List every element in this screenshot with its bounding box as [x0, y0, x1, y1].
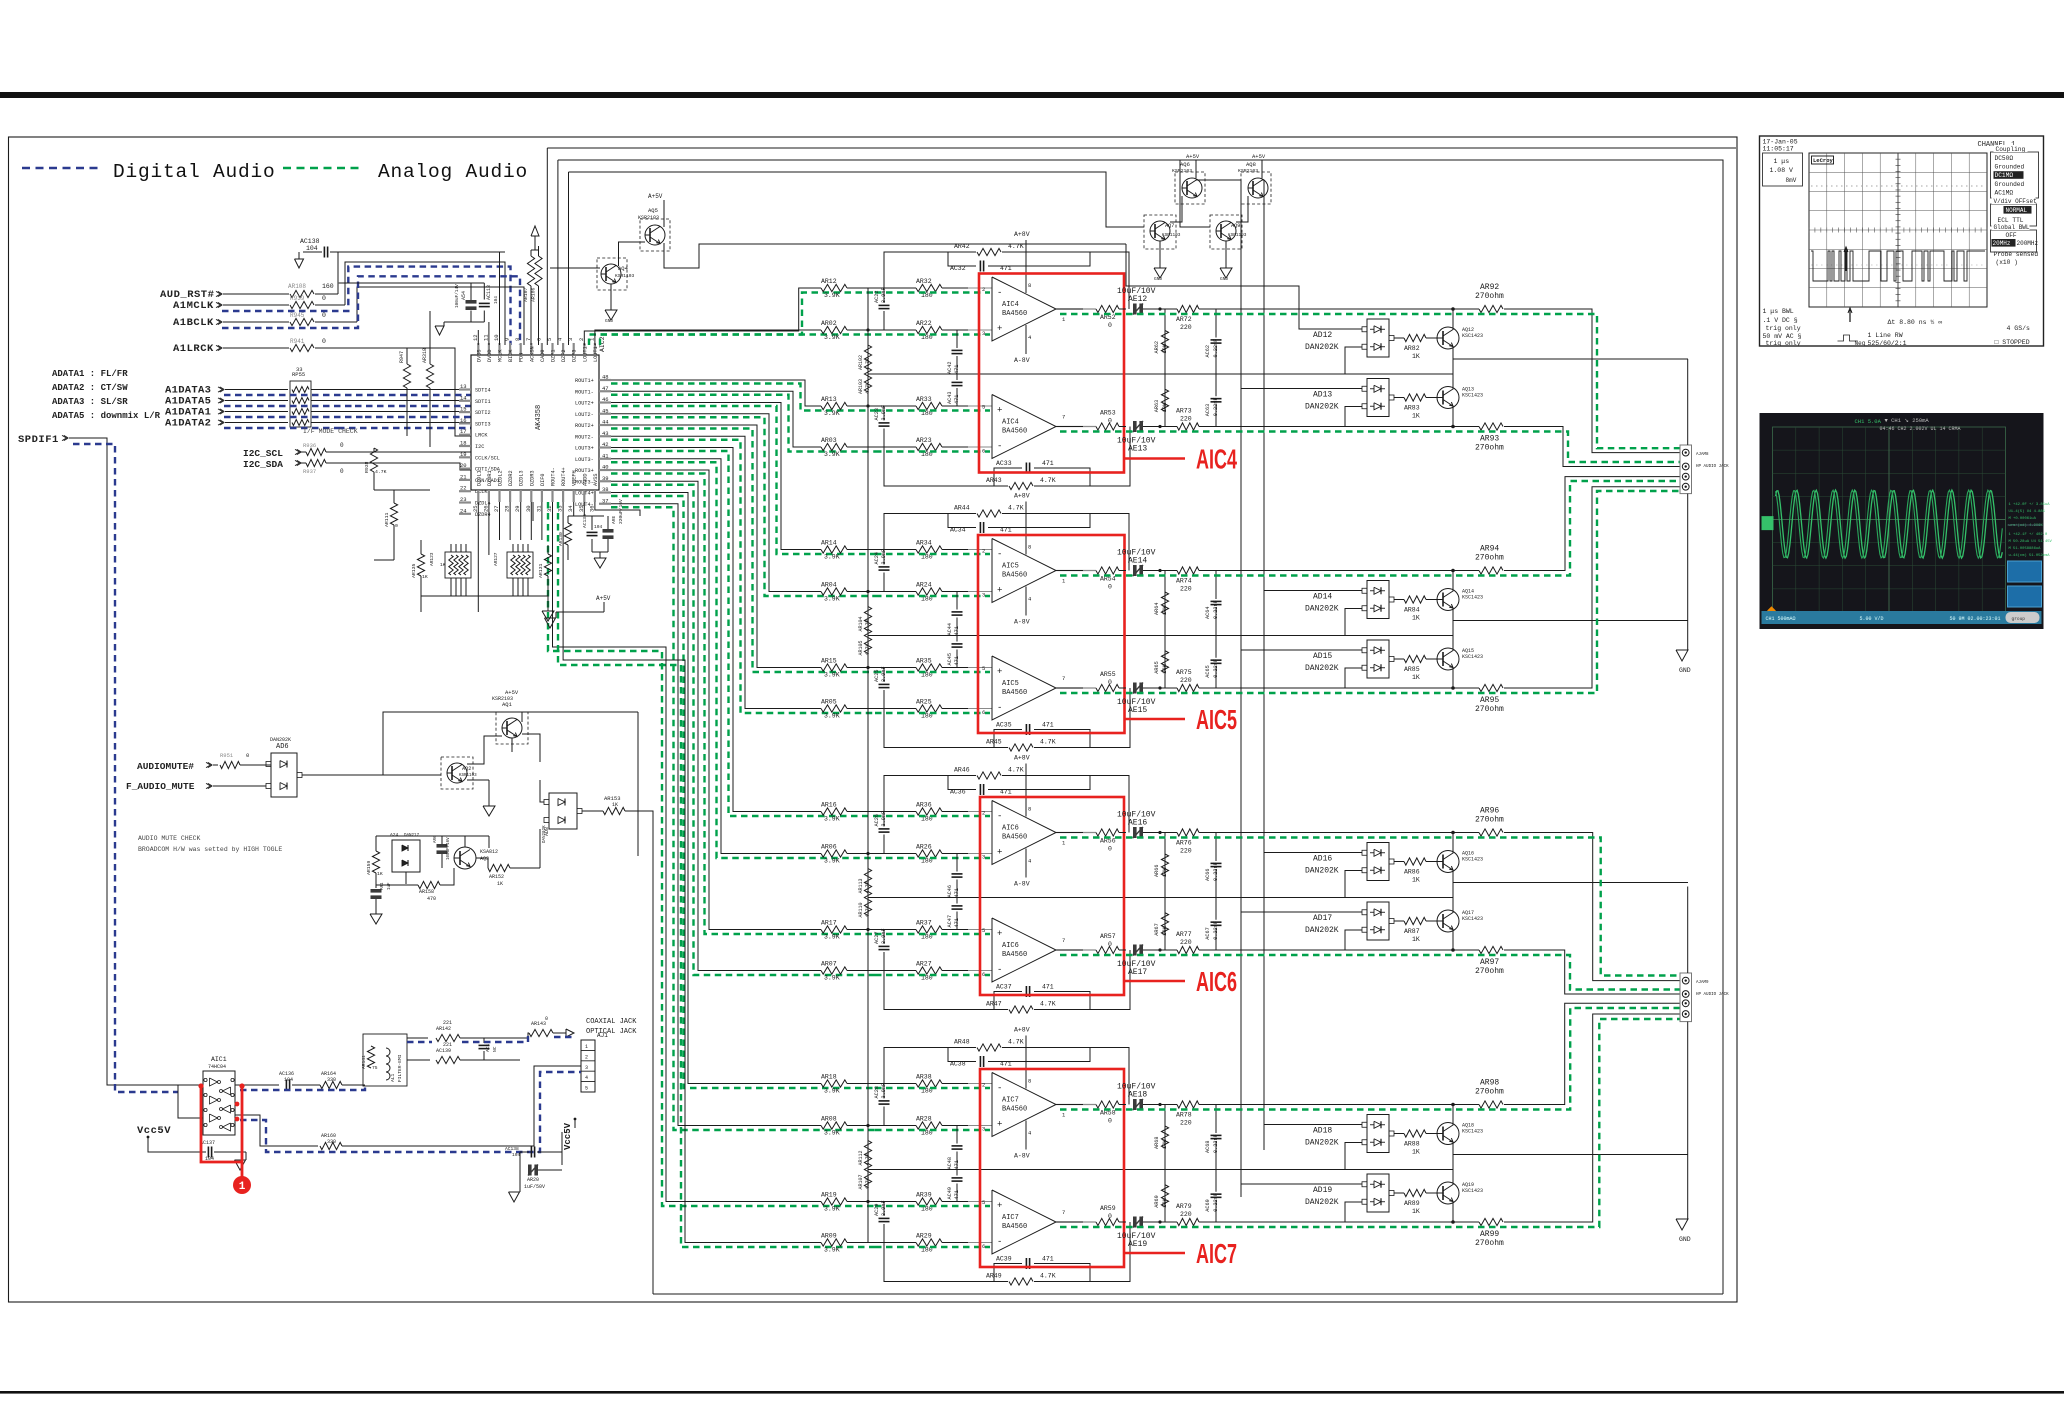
svg-text:1 μs: 1 μs — [1774, 158, 1790, 165]
svg-text:AQ4: AQ4 — [618, 265, 629, 272]
analog dash into opamp row3 — [875, 409, 990, 411]
svg-text:270ohm: 270ohm — [1475, 967, 1504, 976]
svg-text:0: 0 — [1108, 418, 1112, 425]
svg-text:AR35: AR35 — [916, 658, 932, 665]
svg-text:A+8V: A+8V — [1014, 231, 1030, 238]
analog dash into opamp row3 — [875, 933, 990, 935]
diode AD6 DAN202K — [271, 753, 297, 797]
collector/emitter wires AQ15 — [1452, 667, 1454, 688]
IC left pin 14 SDTI1 — [459, 400, 471, 402]
svg-text:3.9K: 3.9K — [824, 672, 840, 679]
red label AIC5 — [1125, 718, 1186, 721]
resistor AR66 10K — [1164, 833, 1166, 898]
svg-text:0: 0 — [1108, 679, 1112, 686]
svg-text:AR107: AR107 — [523, 287, 529, 302]
capacitor AC46 471 — [956, 854, 958, 872]
IC AIC1 74HC04 — [203, 1071, 235, 1135]
resistor AR99 270ohm — [1451, 1220, 1455, 1224]
svg-text:1: 1 — [585, 1044, 588, 1050]
svg-text:AR23: AR23 — [916, 437, 932, 444]
diode AD17 DAN202K — [1367, 902, 1389, 940]
wire to mute stage ch1 — [1240, 426, 1453, 428]
resistor R951 0 — [220, 761, 240, 768]
capacitor AC66 0.22nF — [1215, 833, 1217, 862]
svg-text:R936: R936 — [303, 442, 316, 449]
svg-text:7: 7 — [1062, 414, 1065, 421]
IC right pin 40 ROUT3+ — [599, 469, 611, 471]
svg-text:KSR1103: KSR1103 — [459, 774, 477, 778]
svg-text:17: 17 — [460, 428, 467, 435]
resistor AR12 3.9K — [821, 284, 847, 291]
svg-text:KSC1423: KSC1423 — [1462, 857, 1483, 863]
svg-text:HP AUDIO JACK: HP AUDIO JACK — [1696, 993, 1729, 997]
svg-text:AR34: AR34 — [916, 540, 932, 547]
resistor AR105 4.7K — [867, 629, 869, 636]
svg-text:42: 42 — [602, 441, 609, 448]
svg-text:3: 3 — [982, 330, 985, 337]
resistor AR93 270ohm — [1451, 425, 1455, 429]
resistor AR32 180 — [916, 284, 942, 291]
svg-text:100uF/16V: 100uF/16V — [446, 837, 451, 860]
svg-text:V/div OFFset: V/div OFFset — [1994, 198, 2037, 205]
resistor R945 0 — [290, 318, 314, 325]
svg-text:AR37: AR37 — [916, 920, 932, 927]
resistor AR33 180 — [916, 402, 942, 409]
svg-text:AR79: AR79 — [1176, 1203, 1192, 1210]
oscilloscope screenshot 2 background — [1760, 413, 2044, 629]
svg-text:AD16: AD16 — [1313, 855, 1332, 864]
schematic sheet frame — [9, 137, 1738, 1302]
svg-text:A+8V: A+8V — [1014, 1027, 1030, 1034]
IC right pin 43 ROUT2- — [599, 435, 611, 437]
svg-text:270ohm: 270ohm — [1475, 444, 1504, 453]
svg-text:-: - — [997, 550, 1002, 560]
resistor AR52 0 — [1096, 305, 1119, 312]
analog dash into opamp row2 — [875, 333, 990, 335]
op-amp AIC5 BA4560 (B) — [992, 656, 1056, 720]
svg-text:8: 8 — [1028, 1078, 1031, 1085]
ground AIC1 — [245, 1152, 247, 1160]
svg-text:Neg: Neg — [1855, 340, 1866, 347]
svg-text:Global BWL: Global BWL — [1994, 224, 2030, 231]
analog dash into opamp row1 — [875, 291, 990, 293]
scope1 vdiv menu — [1991, 204, 2037, 226]
capacitor AC27 3.9nF — [883, 930, 885, 945]
svg-text:KSC1423: KSC1423 — [1462, 595, 1483, 601]
resistor AR84 1K — [1404, 596, 1426, 603]
svg-text:+: + — [997, 848, 1002, 858]
svg-text:AR28: AR28 — [916, 1116, 932, 1123]
ground AQ7 — [1159, 262, 1161, 268]
ground — [443, 322, 445, 326]
IC AIC2 AK4358 body — [471, 355, 599, 490]
IC right pin 45 LOUT2- — [599, 413, 611, 415]
svg-text:AC65: AC65 — [1205, 665, 1211, 677]
resistor AR58 0 — [1096, 1101, 1119, 1108]
IC bottom pin 26 DZDR1 — [488, 490, 490, 502]
svg-text:R951: R951 — [220, 752, 234, 759]
svg-text:AIC5: AIC5 — [1196, 704, 1237, 735]
resistor AR26 180 — [916, 850, 942, 857]
resistor AR64 10K — [1164, 571, 1166, 636]
svg-text:29: 29 — [514, 505, 521, 512]
resistor AR97 270ohm — [1451, 948, 1455, 952]
svg-text:A-8V: A-8V — [1014, 357, 1030, 364]
svg-text:7: 7 — [1062, 937, 1065, 944]
capacitor AC32 471 — [948, 252, 976, 266]
analog dash into opamp row4 — [875, 712, 990, 714]
svg-text:4 GS/s: 4 GS/s — [2007, 325, 2031, 332]
svg-text:AC113: AC113 — [486, 285, 492, 300]
svg-text:AE14: AE14 — [1128, 557, 1147, 566]
svg-text:AR135: AR135 — [411, 563, 417, 578]
svg-text:1K: 1K — [377, 871, 383, 877]
svg-text:0: 0 — [322, 312, 326, 319]
analog wire ROUT route 2 — [611, 391, 821, 447]
capacitor AE19 10uF/10V — [1133, 1217, 1137, 1228]
transistor AQ1 KSR2103 — [496, 712, 528, 744]
analog dash route 11 — [611, 496, 875, 1088]
svg-text:471: 471 — [954, 888, 960, 897]
svg-text:AR88: AR88 — [1404, 1141, 1420, 1148]
diode pin2 wire AD18 — [1345, 1143, 1362, 1170]
wire row 3 — [847, 929, 916, 931]
DZF feed AD17 — [1241, 911, 1362, 913]
analog wire ROUT route 6 — [611, 436, 821, 708]
svg-text:AJ1: AJ1 — [597, 1032, 608, 1039]
IC left pin 15 SDTI2 — [459, 411, 471, 413]
svg-text:20MHz: 20MHz — [1993, 240, 2011, 247]
svg-text:u-44(cm) 51.052mmA: u-44(cm) 51.052mmA — [2009, 553, 2051, 558]
svg-text:BA4560: BA4560 — [1002, 1223, 1027, 1231]
svg-text:4.7K: 4.7K — [375, 469, 387, 475]
svg-text:AIC6: AIC6 — [1196, 966, 1237, 997]
svg-text:0: 0 — [340, 468, 344, 475]
diode pin2 wire AD12 — [1345, 347, 1362, 374]
svg-text:(x10 ): (x10 ) — [1996, 259, 2018, 266]
scope2 bottom bar — [1762, 611, 2042, 624]
svg-text:A24: A24 — [390, 832, 399, 838]
svg-text:GND: GND — [1679, 667, 1691, 674]
resistor AR143 0 — [529, 1029, 553, 1036]
svg-text:AR1: AR1 — [381, 882, 385, 890]
svg-text:220: 220 — [1180, 848, 1192, 855]
analog dash into opamp row2 — [875, 595, 990, 597]
capacitor AC28 3.9nF — [883, 1084, 885, 1099]
IC right pin 48 ROUT1+ — [599, 379, 611, 381]
IC left pin 19 CCLK/SCL — [459, 456, 471, 458]
svg-text:471: 471 — [1000, 527, 1012, 534]
svg-text:AC46: AC46 — [947, 885, 953, 897]
resistor AR108 160 — [290, 290, 314, 297]
svg-text:41: 41 — [602, 452, 609, 459]
svg-text:U1-4(5) U4 4.885: U1-4(5) U4 4.885 — [2009, 509, 2046, 514]
digital dash A1DATA1 — [224, 416, 365, 418]
resistor AR39 180 — [916, 1198, 942, 1205]
resistor AR318 NC — [426, 364, 433, 388]
IC bottom pin verticals — [477, 502, 479, 540]
svg-text:DZDL3: DZDL3 — [519, 470, 525, 486]
svg-text:AE12: AE12 — [1128, 295, 1147, 304]
DZF feed AD14 — [1264, 590, 1362, 592]
svg-text:DAN202K: DAN202K — [1305, 867, 1339, 876]
svg-text:AR15: AR15 — [821, 658, 837, 665]
svg-text:270ohm: 270ohm — [1475, 1088, 1504, 1097]
svg-text:4.7K: 4.7K — [1008, 505, 1024, 512]
ground — [519, 1170, 521, 1192]
resistor AR86 1K — [1404, 858, 1426, 865]
svg-text:104: 104 — [594, 524, 603, 530]
resistor AR14 3.9K — [821, 546, 847, 553]
svg-text:AC45: AC45 — [947, 653, 953, 665]
resistor AR38 180 — [916, 1080, 942, 1087]
svg-text:4: 4 — [585, 1075, 588, 1081]
svg-text:3.9K: 3.9K — [824, 596, 840, 603]
svg-text:CCLK/SCL: CCLK/SCL — [475, 455, 500, 461]
svg-text:AC1: AC1 — [485, 1043, 491, 1052]
svg-text:43: 43 — [602, 430, 609, 437]
svg-text:AR82: AR82 — [1404, 345, 1420, 352]
svg-text:AR25: AR25 — [916, 699, 932, 706]
svg-text:A-8V: A-8V — [1014, 1153, 1030, 1160]
analog dash into opamp row3 — [875, 671, 990, 673]
IC top pin 6 CAD0 — [541, 343, 543, 355]
resistor R937 0 — [306, 459, 326, 466]
svg-text:AD18: AD18 — [1313, 1127, 1332, 1136]
red highlight box AIC7 — [980, 1069, 1124, 1267]
svg-text:ARE: ARE — [611, 515, 617, 524]
svg-text:1K: 1K — [1412, 674, 1420, 681]
svg-text:471: 471 — [1042, 1256, 1054, 1263]
svg-text:DAN202K: DAN202K — [1305, 926, 1339, 935]
svg-text:5: 5 — [982, 927, 985, 934]
svg-text:0.22nF: 0.22nF — [1213, 921, 1219, 940]
svg-text:trig only: trig only — [1766, 325, 1801, 332]
svg-text:0: 0 — [545, 1016, 548, 1022]
svg-text:4.7K: 4.7K — [1040, 1001, 1056, 1008]
svg-text:AC42: AC42 — [947, 362, 953, 374]
svg-text:160: 160 — [322, 283, 334, 290]
svg-text:BA4560: BA4560 — [1002, 428, 1027, 436]
svg-text:AQ2: AQ2 — [462, 766, 471, 772]
svg-text:DZF3: DZF3 — [572, 350, 578, 362]
svg-text:+: + — [997, 1201, 1002, 1211]
wire row 1 — [847, 549, 916, 551]
svg-text:LOUT1-: LOUT1- — [593, 343, 599, 362]
svg-text:AR110: AR110 — [858, 902, 864, 917]
svg-text:AIC4: AIC4 — [1002, 419, 1019, 427]
svg-text:220uF/16V: 220uF/16V — [618, 499, 624, 524]
resistor AR75 220 — [1158, 686, 1161, 689]
ground AQ9 — [1225, 262, 1227, 268]
resistor AR111 0 — [390, 503, 397, 525]
power up arrow above PDN — [534, 236, 536, 250]
resistor AR53 0 — [1096, 423, 1119, 430]
scope1 trigger arrows — [1845, 249, 1847, 271]
svg-text:0.22nF: 0.22nF — [1213, 862, 1219, 881]
capacitor AC36 471 — [948, 776, 976, 790]
VREFH/AVDD wires — [573, 502, 575, 516]
analog dash route 10 — [611, 485, 875, 975]
collector/emitter wires AQ12 — [1452, 309, 1454, 330]
resistor AR141 75 — [367, 1046, 374, 1068]
transistor AQ13 KSC1423 — [1437, 387, 1459, 409]
capacitor AE14 10uF/10V — [1133, 565, 1137, 576]
svg-text:ADATA3 : SL/SR: ADATA3 : SL/SR — [52, 397, 128, 407]
resistor AR47 4.7K — [884, 971, 1008, 1010]
svg-text:AC36: AC36 — [950, 789, 966, 796]
svg-text:M 50.28uA U4 51.45V: M 50.28uA U4 51.45V — [2009, 540, 2053, 544]
svg-text:A+8V: A+8V — [1014, 755, 1030, 762]
svg-text:18: 18 — [460, 440, 467, 447]
svg-text:3.9K: 3.9K — [824, 713, 840, 720]
svg-text:6: 6 — [982, 1243, 985, 1250]
output route ch4 — [1504, 833, 1680, 981]
svg-text:10K: 10K — [1162, 343, 1168, 353]
scope2 left marker — [1762, 516, 1774, 530]
mid rail — [868, 897, 1453, 899]
svg-text:ROUT4+: ROUT4+ — [561, 467, 567, 486]
svg-text:0: 0 — [1108, 846, 1112, 853]
wire opamp out ch2 — [1056, 570, 1096, 572]
svg-text:AE13: AE13 — [1128, 445, 1147, 454]
IC bottom pin 36 AVSS — [594, 490, 596, 502]
svg-text:330: 330 — [327, 1139, 336, 1145]
analog dash route 2 — [611, 395, 875, 452]
op-amp AIC4 BA4560 (A) — [992, 277, 1056, 341]
svg-text:-: - — [997, 812, 1002, 822]
svg-text:AR111: AR111 — [384, 512, 390, 527]
svg-text:Analog Audio: Analog Audio — [378, 161, 528, 183]
svg-text:AIC4: AIC4 — [1196, 444, 1237, 475]
IC top pin 12 DVSS — [477, 343, 479, 355]
svg-text:AR85: AR85 — [1404, 666, 1420, 673]
svg-text:14: 14 — [460, 394, 467, 401]
collector/emitter wires AQ13 — [1452, 406, 1454, 427]
svg-text:8: 8 — [1028, 282, 1031, 289]
capacitor AC69 0.22nF — [1215, 1170, 1217, 1192]
wire row 4 — [847, 1242, 916, 1244]
pair ground line — [1453, 1154, 1688, 1156]
digital dash A1DATA3 — [224, 394, 345, 396]
digital dash A1DATA2 — [224, 427, 338, 429]
svg-text:ACKSN: ACKSN — [529, 346, 535, 362]
wire row 3 — [847, 405, 916, 407]
svg-text:3.9K: 3.9K — [824, 975, 840, 982]
SPDIF1 digital dash — [73, 444, 178, 1092]
red highlight box AIC6 — [980, 797, 1124, 995]
resistor AR76 220 — [1158, 831, 1161, 834]
svg-text:17-Jan-05: 17-Jan-05 — [1763, 139, 1798, 146]
svg-text:AR67: AR67 — [1154, 923, 1160, 935]
svg-text:AR108: AR108 — [288, 283, 306, 290]
pair ground line — [1453, 882, 1688, 884]
analog dash into opamp row1 — [875, 815, 990, 817]
svg-text:4.7K: 4.7K — [1008, 1039, 1024, 1046]
svg-text:AR03: AR03 — [821, 437, 837, 444]
svg-text:100uF/14V: 100uF/14V — [455, 284, 460, 308]
svg-text:AC44: AC44 — [947, 623, 953, 635]
svg-text:2: 2 — [982, 286, 985, 293]
svg-text:DAN202K: DAN202K — [1305, 1139, 1339, 1148]
wire row 1 — [847, 1083, 916, 1085]
red highlight AIC1 wires — [201, 1086, 242, 1162]
wire row 4 — [847, 708, 916, 710]
resistor AR48 4.7K — [884, 1048, 976, 1084]
svg-text:3.9K: 3.9K — [824, 1088, 840, 1095]
resistor AR74 220 — [1158, 569, 1161, 572]
svg-text:AVDD: AVDD — [582, 474, 588, 486]
resistor AR23 180 — [916, 443, 942, 450]
ground AQ2 — [488, 800, 490, 806]
svg-text:+: + — [997, 324, 1002, 334]
IC top pin 7 ACKSN — [530, 343, 532, 355]
DZF feed AD18 — [1264, 1124, 1362, 1126]
diode pin2 wire AD17 — [1345, 930, 1362, 950]
svg-text:AR29: AR29 — [916, 1233, 932, 1240]
resistor AR09 3.9K — [821, 1239, 847, 1246]
svg-text:DZF1: DZF1 — [551, 350, 557, 362]
svg-text:SDTI3: SDTI3 — [475, 421, 491, 427]
capacitor AC22 3.9nF — [883, 288, 885, 303]
resistor AR103 4.7K — [867, 367, 869, 374]
transistor AQ2 KSR1103 — [441, 757, 473, 789]
diode pin2 wire AD14 — [1345, 609, 1362, 636]
capacitor AC25 3.9nF — [883, 668, 885, 683]
wire to mute stage ch5 — [1240, 949, 1453, 951]
svg-text:AC29: AC29 — [874, 1204, 880, 1216]
svg-text:AC37: AC37 — [996, 984, 1012, 991]
resistor AR107 4.7K — [867, 1163, 869, 1170]
svg-text:A+5V: A+5V — [505, 689, 519, 696]
resistor AR112 4.7K — [867, 1126, 869, 1140]
svg-text:AE15: AE15 — [1128, 706, 1147, 715]
svg-text:DZDL1: DZDL1 — [476, 470, 482, 486]
svg-text:▼ CH1 ↘ 250mA: ▼ CH1 ↘ 250mA — [1885, 417, 1930, 424]
top rail 2 — [558, 160, 1723, 1294]
svg-text:AR75: AR75 — [1176, 669, 1192, 676]
svg-text:36: 36 — [588, 505, 595, 512]
svg-text:AD14: AD14 — [1313, 593, 1332, 602]
svg-text:AIC7: AIC7 — [1002, 1214, 1019, 1222]
IC bottom pin 34 VREFH — [573, 490, 575, 502]
svg-text:AD12: AD12 — [1313, 331, 1332, 340]
svg-text:33: 33 — [296, 366, 303, 373]
svg-text:KSR2103: KSR2103 — [1172, 168, 1192, 174]
svg-text:FILTER-EMI: FILTER-EMI — [397, 1054, 403, 1082]
resistor AR98 270ohm — [1451, 1103, 1455, 1107]
optical out arrow — [566, 1029, 574, 1037]
op-amp AIC5 BA4560 (A) — [992, 539, 1056, 603]
wire row 2 — [847, 853, 916, 855]
analog dash into opamp row4 — [875, 974, 990, 976]
svg-text:7: 7 — [1062, 675, 1065, 682]
svg-text:AVSS: AVSS — [593, 474, 599, 486]
diode AD18 DAN202K — [1367, 1115, 1389, 1153]
svg-text:0.22nF: 0.22nF — [1213, 1134, 1219, 1153]
svg-text:-: - — [997, 442, 1002, 452]
svg-text:.1 V DC §: .1 V DC § — [1763, 317, 1798, 324]
svg-text:ADATA5 : downmix L/R: ADATA5 : downmix L/R — [52, 411, 161, 421]
top title bar — [0, 92, 2064, 98]
svg-text:AR113: AR113 — [858, 878, 864, 893]
resistor R936 0 — [306, 448, 326, 455]
svg-text:AC34: AC34 — [950, 527, 966, 534]
resistor AR102 4.7K — [867, 330, 869, 344]
IC bottom pin 28 DZDR2 — [509, 490, 511, 502]
resistor AR142 221 — [436, 1034, 460, 1041]
capacitor AC34 471 — [948, 514, 976, 528]
